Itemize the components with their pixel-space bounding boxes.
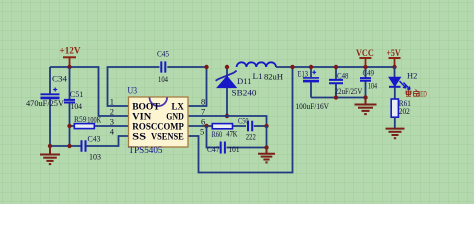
resistor R60 <box>207 124 247 139</box>
node diode anode / gnd wire <box>225 114 229 118</box>
svg-text:C50: C50 <box>238 116 249 126</box>
svg-text:H2: H2 <box>407 71 417 81</box>
svg-text:2: 2 <box>110 107 114 117</box>
node VCC junction <box>363 65 367 69</box>
node R59 tee <box>67 124 71 128</box>
svg-text:SS: SS <box>132 131 146 142</box>
svg-text:5: 5 <box>200 127 204 137</box>
capacitor C47 <box>207 126 267 154</box>
node C48 bottom <box>334 95 338 99</box>
svg-text:L1: L1 <box>253 71 263 81</box>
svg-text:D11: D11 <box>237 76 252 86</box>
svg-text:103: 103 <box>89 152 101 162</box>
svg-text:+12V: +12V <box>60 47 81 57</box>
svg-text:100K: 100K <box>87 115 102 125</box>
svg-text:TPS5405: TPS5405 <box>129 145 163 155</box>
svg-text:VSENSE: VSENSE <box>151 131 184 142</box>
capacitor C48 <box>329 67 362 98</box>
svg-text:104: 104 <box>71 101 83 111</box>
node C47 right <box>264 145 268 149</box>
svg-text:202: 202 <box>399 106 410 116</box>
wire +12V rail to VIN <box>50 67 129 116</box>
svg-text:3: 3 <box>110 117 114 127</box>
LED H2 <box>389 67 417 99</box>
capacitor C51 <box>64 67 83 146</box>
wire pin6 from chip <box>188 125 207 127</box>
svg-text:U3: U3 <box>128 86 138 96</box>
capacitor C43 <box>82 134 129 162</box>
svg-text:C45: C45 <box>157 49 169 59</box>
svg-text:470uF/25V: 470uF/25V <box>26 98 65 108</box>
svg-text:22uF/25V: 22uF/25V <box>335 87 363 96</box>
svg-text:100uF/16V: 100uF/16V <box>296 101 330 111</box>
svg-text:C51: C51 <box>70 89 84 99</box>
svg-text:104: 104 <box>158 74 169 84</box>
svg-text:104: 104 <box>368 82 377 91</box>
node C50 right <box>264 124 268 128</box>
power +12V <box>60 47 81 68</box>
node COMP <box>204 124 208 128</box>
resistor R59 <box>70 114 129 129</box>
node E13 top <box>309 65 313 69</box>
capacitor E13 electrolytic <box>296 67 330 111</box>
svg-text:VCC: VCC <box>356 49 374 59</box>
capacitor C49 <box>360 67 377 98</box>
wire BOOT loop <box>108 67 160 106</box>
node C49 bottom <box>363 95 367 99</box>
inductor L1 <box>237 62 283 81</box>
capacitor C45 <box>157 49 207 85</box>
ground (comp network) <box>258 148 275 163</box>
ground (output) <box>355 98 377 115</box>
svg-text:7: 7 <box>201 107 205 117</box>
ground (left) <box>40 146 60 164</box>
node C48 top <box>334 65 338 69</box>
svg-text:6: 6 <box>201 117 205 127</box>
svg-text:101: 101 <box>229 144 240 154</box>
resistor R61 <box>391 98 411 128</box>
capacitor C34 <box>26 67 68 146</box>
wire ground rail left <box>50 145 81 147</box>
svg-text:C49: C49 <box>363 69 375 78</box>
svg-text:R59: R59 <box>74 114 87 124</box>
node +5V junction <box>392 65 396 69</box>
wire output rail <box>276 66 395 68</box>
IC U3 TPS5405 <box>110 86 206 155</box>
wire VSENSE feedback <box>188 67 293 173</box>
svg-text:C47: C47 <box>207 144 220 154</box>
diode D11 <box>216 67 257 116</box>
capacitor C50 <box>238 116 267 142</box>
ground (LED) <box>386 129 405 139</box>
power +5V <box>386 49 400 67</box>
node diode top <box>225 65 229 69</box>
node feedback tap <box>290 65 294 69</box>
wire C50-C47 vertical <box>266 126 268 148</box>
label yellow LED <box>405 90 427 99</box>
wire GND pin7 <box>188 116 267 126</box>
svg-text:E13: E13 <box>298 70 309 79</box>
svg-text:LED: LED <box>417 90 427 99</box>
svg-text:222: 222 <box>246 132 256 142</box>
node LX <box>204 65 208 69</box>
svg-text:+5V: +5V <box>386 49 400 59</box>
svg-text:1: 1 <box>110 97 114 107</box>
svg-text:C34: C34 <box>52 74 68 84</box>
svg-text:SB240: SB240 <box>232 88 257 98</box>
node +12V junction <box>67 65 71 69</box>
node C51 ground <box>67 144 71 148</box>
power VCC <box>356 49 374 67</box>
wire lower gnd rail right <box>311 97 366 99</box>
svg-text:8: 8 <box>201 97 205 107</box>
node C34 ground <box>48 144 52 148</box>
wire LX to node <box>188 67 207 106</box>
svg-text:47K: 47K <box>226 129 238 139</box>
svg-text:C43: C43 <box>88 134 101 144</box>
svg-text:C48: C48 <box>337 72 349 81</box>
svg-text:R60: R60 <box>212 129 223 139</box>
svg-text:82uH: 82uH <box>264 72 283 82</box>
